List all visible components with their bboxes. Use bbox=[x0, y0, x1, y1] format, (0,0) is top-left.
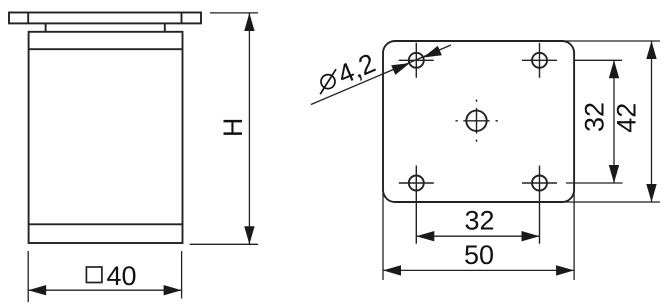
centerline center hole vertical bbox=[476, 108, 478, 134]
centerline center hole horizontal dot right bbox=[496, 120, 498, 122]
dimension 50: dimension line bbox=[383, 269, 574, 271]
dimension square40: extension line left bbox=[27, 251, 29, 302]
dimension 42: dimension line bbox=[651, 41, 653, 202]
centerline center hole vertical dot bottom bbox=[476, 140, 478, 142]
centerline hole bottom-left horizontal bbox=[399, 182, 434, 184]
arrow 32 vertical bottom (down) bbox=[609, 165, 619, 183]
centerline center hole horizontal bbox=[463, 120, 489, 122]
left view: neck right edge bbox=[164, 23, 166, 31]
left view: plate fold line right bbox=[181, 13, 183, 24]
arrow square40 left bbox=[28, 285, 46, 295]
dimension H: extension line top bbox=[210, 12, 258, 14]
left view: plate fold line left bbox=[27, 13, 29, 24]
centerline hole bottom-left vertical (extends as extension line) bbox=[415, 166, 417, 244]
left view: mounting plate edge bbox=[9, 13, 201, 24]
dimension 32 vertical: extension line top bbox=[575, 59, 622, 61]
centerline hole bottom-right vertical (extends as extension line) bbox=[539, 166, 541, 244]
centerline hole top-left vertical bbox=[415, 43, 417, 78]
text 4,2 bbox=[333, 48, 379, 90]
arrow H bottom (down) bbox=[244, 226, 254, 244]
svg-text:40: 40 bbox=[107, 261, 137, 291]
phi symbol stroke bbox=[320, 69, 336, 94]
left view: body upper line bbox=[29, 48, 183, 50]
left view: leg body bbox=[29, 32, 183, 243]
arrow 32 horizontal left bbox=[416, 231, 434, 241]
arrow 50 left bbox=[383, 265, 401, 275]
right view: hole top-right bbox=[532, 53, 547, 68]
dimension 32 vertical: extension line bottom bbox=[566, 182, 623, 184]
centerline center hole horizontal dot left bbox=[456, 120, 458, 122]
svg-text:32: 32 bbox=[464, 206, 494, 236]
centerline hole top-left horizontal bbox=[399, 59, 434, 61]
centerline center hole vertical dot top bbox=[476, 100, 478, 102]
right view: hole bottom-left bbox=[409, 176, 424, 191]
leader line diameter 4,2 bbox=[311, 45, 451, 105]
centerline hole top-right vertical bbox=[539, 43, 541, 78]
right view: center hole bbox=[466, 111, 486, 131]
centerline hole top-right horizontal bbox=[522, 59, 557, 61]
dimension 50: extension line right bbox=[573, 193, 575, 280]
square symbol of square40 bbox=[86, 267, 102, 283]
dimension 32 vertical: dimension line bbox=[613, 60, 615, 183]
svg-text:42: 42 bbox=[611, 103, 641, 133]
phi symbol circle bbox=[321, 75, 335, 89]
right view: mounting plate outline bbox=[383, 41, 574, 202]
right view: hole top-left bbox=[409, 53, 424, 68]
arrow H top (up) bbox=[244, 13, 254, 31]
dimension 42: extension line bottom bbox=[562, 201, 660, 203]
dimension square40: dimension line bbox=[28, 289, 181, 291]
arrow 42 top (up) bbox=[646, 41, 656, 59]
centerline hole bottom-right horizontal bbox=[522, 182, 557, 184]
svg-text:32: 32 bbox=[580, 102, 610, 132]
arrow square40 right bbox=[164, 285, 182, 295]
svg-text:H: H bbox=[218, 118, 248, 137]
leader arrow lower-left (points up-right at hole) bbox=[391, 63, 410, 75]
leader arrow upper-right (points down-left at hole) bbox=[423, 46, 442, 58]
left view: body lower line bbox=[29, 223, 183, 225]
dimension 42: extension line top bbox=[562, 40, 660, 42]
left view: neck left edge bbox=[45, 23, 47, 31]
dimension square40: extension line right bbox=[181, 251, 183, 299]
dimension 50: extension line left bbox=[382, 193, 384, 280]
dimension 32 horizontal: dimension line bbox=[416, 235, 539, 237]
dimension H: dimension line bbox=[248, 13, 250, 244]
svg-text:50: 50 bbox=[464, 240, 494, 270]
arrow 50 right bbox=[556, 265, 574, 275]
arrow 32 vertical top (up) bbox=[609, 60, 619, 78]
arrow 32 horizontal right bbox=[522, 231, 540, 241]
right view: hole bottom-right bbox=[532, 176, 547, 191]
dimension H: extension line bottom bbox=[190, 243, 258, 245]
arrow 42 bottom (down) bbox=[646, 184, 656, 202]
